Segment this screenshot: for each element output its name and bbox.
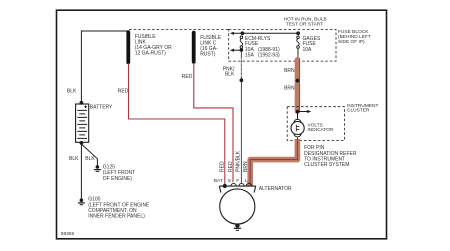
svg-text:RED: RED xyxy=(182,74,193,80)
svg-text:BLK: BLK xyxy=(69,156,79,162)
svg-text:RED: RED xyxy=(220,161,226,172)
svg-text:CLUSTER SYSTEM: CLUSTER SYSTEM xyxy=(304,162,349,168)
fusible link (14 GA-GRY OR 12 GA-RUST) xyxy=(126,30,130,64)
label G125 (LEFT FRONT OF ENGINE) xyxy=(103,164,135,182)
fuse ECM-RLYS 10A/15A xyxy=(240,36,243,50)
svg-text:ALTERNATOR: ALTERNATOR xyxy=(259,186,292,192)
node ECM-RLYS fuse output xyxy=(240,48,244,52)
svg-text:TEST OR START: TEST OR START xyxy=(286,21,323,27)
battery xyxy=(76,104,89,142)
volts indicator xyxy=(291,119,304,139)
svg-text:OF ENGINE): OF ENGINE) xyxy=(103,176,133,182)
label G100 (LEFT FRONT OF ENGINE COMPARTMENT, ON INNER FENDER PANEL) xyxy=(88,197,150,220)
svg-text:F: F xyxy=(236,178,239,184)
svg-text:BATTERY: BATTERY xyxy=(90,105,113,111)
ground G125 xyxy=(94,165,101,171)
svg-text:12 GA-RUST): 12 GA-RUST) xyxy=(135,50,166,56)
wire BRN (highlighted) instrument cluster to alternator L xyxy=(250,139,297,186)
svg-text:98365: 98365 xyxy=(61,231,75,237)
wire PNK dashed overlay (fuse to splice) xyxy=(240,58,242,79)
svg-text:BRN: BRN xyxy=(284,86,295,92)
alternator terminal bumps S F L xyxy=(231,183,252,186)
svg-text:HOT IN RUN, BULB: HOT IN RUN, BULB xyxy=(284,16,327,22)
node alternator BAT terminal xyxy=(223,184,227,188)
svg-text:PNK/BLK: PNK/BLK xyxy=(236,150,242,172)
wire RED fusible link C to alternator S xyxy=(194,63,233,182)
svg-text:RED: RED xyxy=(228,161,234,172)
dashed bus from fusible links to fuse block xyxy=(129,28,229,30)
label FUSE BLOCK (BEHIND LEFT SIDE OF IP) xyxy=(338,29,371,45)
wire battery positive to fusible links (BLK) xyxy=(81,31,128,103)
wire RED fusible link to alternator BAT xyxy=(129,64,225,185)
alternator terminal L ring over wire xyxy=(246,183,251,186)
svg-text:S: S xyxy=(228,178,231,184)
fusible link C (16 GA-RUST) xyxy=(192,31,196,64)
label FOR PIN DESIGNATION REFER TO INSTRUMENT CLUSTER SYSTEM xyxy=(304,145,357,168)
svg-text:INNER FENDER PANEL): INNER FENDER PANEL) xyxy=(88,214,145,220)
svg-text:BRN: BRN xyxy=(284,68,295,74)
alternator xyxy=(219,186,255,224)
svg-text:RED: RED xyxy=(118,89,129,95)
node ECM-RLYS fuse feed xyxy=(241,31,245,35)
label PNK/BLK xyxy=(223,67,235,78)
svg-text:BRN: BRN xyxy=(243,161,249,172)
svg-text:RUST): RUST) xyxy=(200,52,216,58)
wire to volts indicator xyxy=(297,112,299,120)
node PNK/BLK splice xyxy=(240,78,244,82)
wire cluster internal feed with arrow xyxy=(298,111,309,113)
wire hot bus inside fuse block xyxy=(232,32,298,34)
svg-text:L: L xyxy=(245,178,248,184)
svg-text:SIDE OF IP): SIDE OF IP) xyxy=(338,39,365,45)
node battery negative junction xyxy=(80,141,84,145)
label FUSIBLE LINK C (16 GA-RUST) xyxy=(200,35,222,58)
node cluster feed junction xyxy=(296,110,299,113)
label HOT IN RUN, BULB TEST OR START xyxy=(284,16,327,27)
svg-text:BLK: BLK xyxy=(85,156,95,162)
label GAGES FUSE 10A xyxy=(303,36,321,53)
wire battery negative to G100 (BLK) xyxy=(80,143,82,199)
ground G100 xyxy=(78,198,85,204)
svg-text:CLUSTER: CLUSTER xyxy=(347,108,370,114)
wire PNK/BLK ECM-RLYS fuse to alternator F xyxy=(240,52,242,184)
instrument cluster dashed box xyxy=(287,107,344,141)
label FUSIBLE LINK (14 GA-GRY OR 12 GA-RUST) xyxy=(135,34,172,57)
wire battery negative to G125 (BLK) xyxy=(81,144,97,165)
svg-text:15A (1992-93): 15A (1992-93) xyxy=(245,53,280,59)
node GAGES fuse feed xyxy=(296,31,300,35)
wire BRN (highlighted) GAGES fuse to instrument cluster xyxy=(295,60,300,112)
svg-text:10A: 10A xyxy=(303,47,313,53)
svg-text:BLK: BLK xyxy=(225,71,235,77)
fuse GAGES 10A xyxy=(297,36,300,58)
node BRN splice xyxy=(296,79,300,83)
wire branch to other circuits (arrow) xyxy=(233,49,242,51)
label INSTRUMENT CLUSTER xyxy=(347,103,379,114)
svg-text:INDICATOR: INDICATOR xyxy=(308,127,334,133)
node battery positive junction xyxy=(80,101,84,105)
svg-text:BLK: BLK xyxy=(67,89,77,95)
label ECM-RLYS FUSE 10A (1988-91) 15A (1992-93) xyxy=(245,36,280,59)
label VOLTS INDICATOR xyxy=(308,122,334,133)
svg-text:BAT: BAT xyxy=(214,178,223,184)
fuse block dashed box xyxy=(229,29,336,61)
ground alternator case xyxy=(234,223,241,230)
